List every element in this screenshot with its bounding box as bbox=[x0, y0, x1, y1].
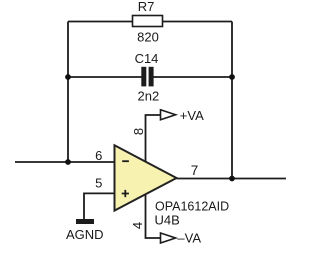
svg-text:820: 820 bbox=[137, 30, 159, 45]
svg-text:8: 8 bbox=[131, 128, 146, 135]
svg-text:5: 5 bbox=[95, 175, 102, 190]
svg-text:–VA: –VA bbox=[177, 231, 201, 246]
svg-text:7: 7 bbox=[191, 163, 199, 178]
svg-text:C14: C14 bbox=[135, 51, 159, 66]
svg-text:OPA1612AID: OPA1612AID bbox=[155, 200, 229, 214]
svg-text:AGND: AGND bbox=[66, 227, 104, 242]
svg-text:+VA: +VA bbox=[180, 108, 204, 123]
svg-text:R7: R7 bbox=[138, 0, 155, 14]
svg-text:6: 6 bbox=[95, 148, 102, 163]
svg-text:2n2: 2n2 bbox=[138, 89, 160, 104]
svg-text:4: 4 bbox=[130, 222, 145, 229]
svg-text:U4B: U4B bbox=[155, 213, 180, 228]
